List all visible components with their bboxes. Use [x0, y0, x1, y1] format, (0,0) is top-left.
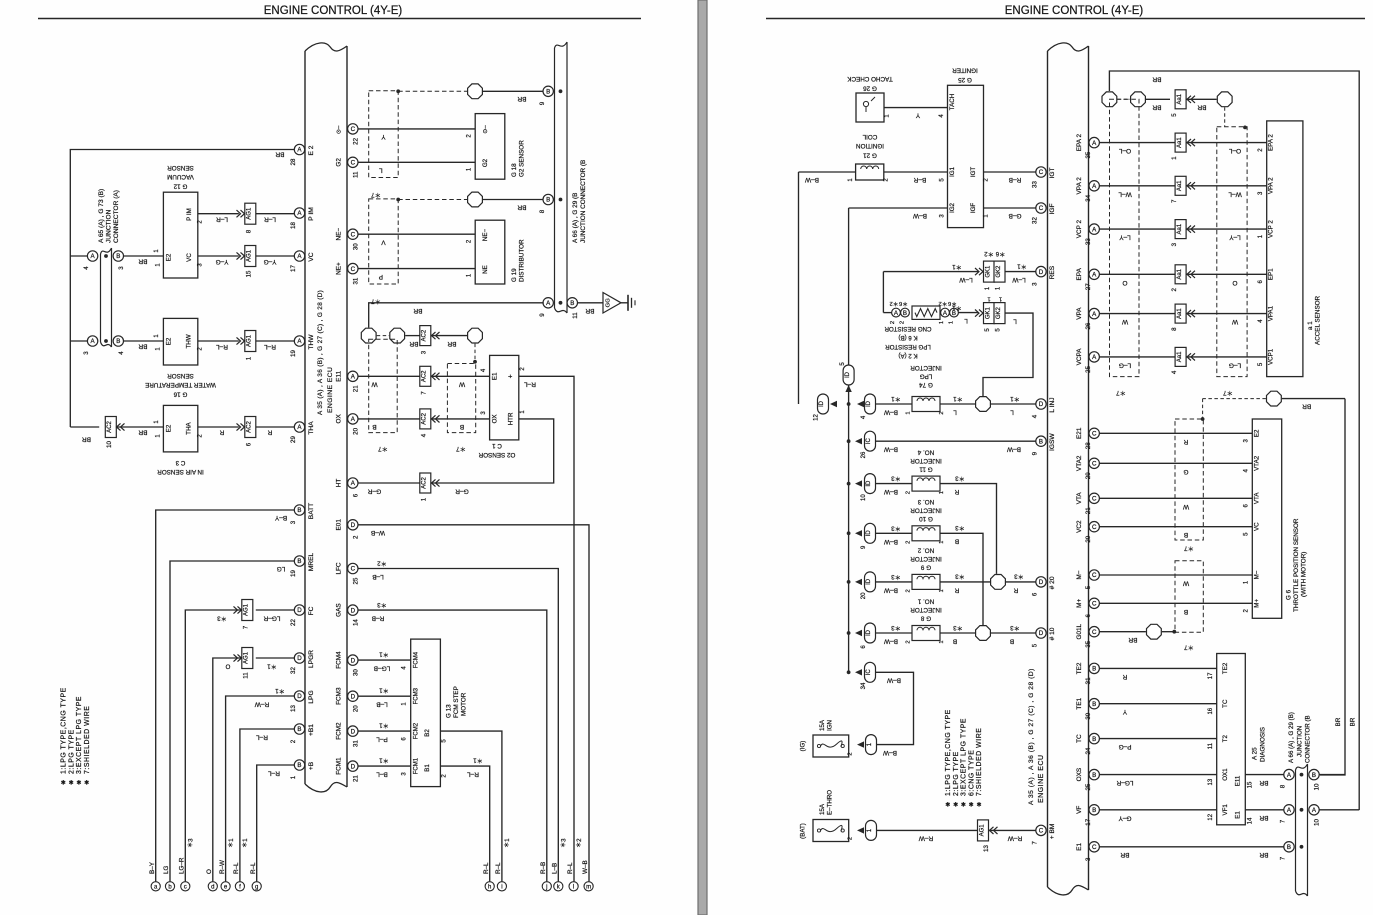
svg-text:Aa1: Aa1: [1177, 180, 1183, 191]
ECU pin 24(B) TC: [1089, 733, 1099, 743]
junction dot injector feed: [847, 402, 851, 406]
svg-text:L: L: [953, 409, 957, 416]
svg-text:G 16: G 16: [173, 391, 187, 398]
svg-text:a 1: a 1: [1307, 321, 1314, 330]
svg-text:GAS: GAS: [336, 603, 343, 617]
svg-text:BR: BR: [275, 151, 284, 158]
svg-text:Y–G: Y–G: [263, 258, 276, 265]
svg-text:VTA: VTA: [1076, 492, 1083, 505]
svg-text:O: O: [1122, 279, 1127, 286]
svg-text:CONNECTOR (B: CONNECTOR (B: [1305, 715, 1312, 763]
ECU pin 31(C) NE+: [348, 263, 358, 273]
svg-text:FCM3: FCM3: [336, 687, 343, 705]
svg-text:6: 6: [1032, 592, 1039, 596]
svg-text:B: B: [546, 197, 550, 204]
page separator strip: [698, 0, 707, 915]
svg-text:＊1: ＊1: [379, 757, 389, 764]
svg-text:TE2: TE2: [1076, 662, 1083, 674]
svg-text:34: 34: [861, 682, 867, 689]
wire IGT to 33C: [984, 171, 1036, 173]
svg-text:B–L: B–L: [376, 771, 388, 778]
ECU pin 7(C) + BM: [1036, 825, 1046, 835]
O2 shield drain dashed v: [474, 344, 476, 362]
svg-text:28: 28: [1085, 442, 1092, 449]
wire TE1 to diagnosis: [1099, 703, 1216, 705]
injector No.1 G 8: [847, 631, 851, 635]
svg-text:HT: HT: [336, 479, 343, 488]
ECU pin 35(A) EPA 2: [1089, 137, 1099, 147]
svg-text:IG2: IG2: [949, 202, 956, 213]
svg-text:R–B: R–B: [1009, 176, 1022, 183]
svg-text:IGNITER: IGNITER: [952, 67, 978, 74]
svg-text:G01L: G01L: [1076, 623, 1083, 639]
svg-text:31: 31: [353, 277, 360, 284]
wire 22C to G2 sensor pin 2: [358, 128, 475, 130]
svg-text:11: 11: [572, 312, 579, 319]
svg-text:VC: VC: [308, 252, 315, 261]
wire B-L FCM1: [358, 765, 410, 767]
svg-text:9: 9: [1032, 451, 1039, 455]
svg-text:R–L: R–L: [250, 862, 257, 874]
distributor shield drain dashed: [398, 199, 467, 201]
octagon BR throttle shield: [1267, 391, 1282, 406]
svg-text:G 26: G 26: [863, 85, 877, 92]
shield junction AC2-6: [245, 417, 256, 438]
svg-text:G–B: G–B: [1008, 212, 1021, 219]
svg-text:AG1: AG1: [247, 334, 253, 347]
wire M− to throttle sensor: [1099, 574, 1252, 576]
svg-text:17: 17: [1085, 818, 1092, 825]
svg-text:COIL: COIL: [862, 133, 877, 140]
svg-text:R–W: R–W: [1007, 835, 1022, 842]
wire B-W to G74: [876, 403, 913, 405]
svg-text:OX: OX: [492, 414, 499, 423]
svg-text:G–R: G–R: [455, 488, 469, 495]
svg-text:E2: E2: [165, 424, 172, 432]
shield junction AC2-7: [420, 366, 431, 386]
svg-text:＊7: ＊7: [1184, 545, 1194, 552]
svg-text:10: 10: [1314, 819, 1321, 826]
svg-text:1: 1: [939, 541, 945, 544]
svg-text:ID: ID: [866, 400, 872, 407]
svg-text:3: 3: [1032, 282, 1039, 286]
svg-text:m: m: [586, 885, 591, 891]
svg-text:OX: OX: [336, 414, 343, 424]
svg-text:B–Y: B–Y: [149, 861, 156, 874]
svg-text:O2 SENSOR: O2 SENSOR: [478, 451, 515, 458]
ECU pin 33(C) IGT: [1036, 167, 1046, 177]
svg-text:＊1: ＊1: [1010, 395, 1020, 402]
svg-text:R–L: R–L: [268, 770, 280, 777]
wire FCM B1 to terminal h: [440, 766, 489, 881]
svg-text:D: D: [1039, 579, 1044, 586]
svg-text:2: 2: [848, 837, 854, 840]
svg-text:B: B: [1184, 608, 1188, 615]
wire R-B GAS down: [358, 610, 547, 881]
svg-text:1:LPG TYPE,CNG TYPE: 1:LPG TYPE,CNG TYPE: [61, 687, 68, 774]
svg-text:A 35 (A) , A 36 (B) , G 27 (C): A 35 (A) , A 36 (B) , G 27 (C) , G 28 (D…: [317, 290, 324, 415]
terminal g R–L: [252, 882, 261, 891]
svg-text:B–W: B–W: [912, 212, 927, 219]
junction B pin 8B: [543, 194, 553, 204]
distributor shield octagon: [468, 192, 483, 207]
svg-text:MOTOR: MOTOR: [461, 692, 468, 716]
ECU pin 3(D) RES: [1036, 266, 1046, 276]
svg-text:TACH: TACH: [949, 94, 956, 110]
wire R-L O2 pin2 down: [519, 376, 574, 881]
svg-text:1: 1: [987, 296, 990, 302]
connector IC-34: [865, 662, 876, 682]
wire R injector4 to #20 drop: [940, 484, 997, 574]
svg-text:B–W: B–W: [883, 586, 898, 593]
svg-text:17: 17: [1208, 672, 1214, 679]
ECU pin 25(B) OXS: [1089, 769, 1099, 779]
terminal d O: [208, 882, 217, 891]
svg-text:3: 3: [118, 266, 125, 270]
svg-text:4: 4: [420, 433, 427, 437]
svg-text:2: 2: [906, 589, 912, 592]
svg-text:＊1: ＊1: [379, 651, 389, 658]
svg-text:B: B: [372, 423, 376, 430]
svg-text:＊2: ＊2: [889, 300, 898, 307]
svg-text:BR: BR: [138, 429, 147, 436]
ECU pin 30(D) FCM4: [348, 655, 358, 665]
wire R-W fuse to AG1-13: [877, 829, 978, 831]
wire FC to terminal c: [185, 610, 242, 881]
terminal k L–B: [554, 882, 563, 891]
svg-text:AC2: AC2: [107, 421, 113, 433]
svg-text:＊3: ＊3: [955, 573, 965, 580]
accel shield octagon 2: [1131, 92, 1146, 107]
svg-text:2: 2: [906, 541, 912, 544]
svg-text:O: O: [1232, 279, 1237, 286]
svg-text:B: B: [1039, 438, 1043, 445]
injector No.2 G 9: [847, 580, 851, 584]
svg-text:B: B: [1092, 807, 1096, 814]
svg-text:C: C: [1092, 461, 1097, 468]
svg-text:9: 9: [539, 101, 546, 105]
svg-text:L–B: L–B: [376, 701, 388, 708]
svg-text:B: B: [1092, 701, 1096, 708]
svg-text:34: 34: [1085, 194, 1092, 201]
svg-text:R–L: R–L: [467, 771, 479, 778]
ECU pin 29(C) VTA2: [1089, 458, 1099, 468]
svg-text:26: 26: [1085, 322, 1092, 329]
svg-text:B: B: [297, 726, 301, 733]
svg-text:＊1: ＊1: [473, 757, 483, 764]
svg-text:2: 2: [290, 739, 297, 743]
svg-text:WATER TEMPERATURE: WATER TEMPERATURE: [145, 381, 216, 388]
wire EPA to accel sensor: [1099, 273, 1175, 275]
svg-text:ID: ID: [866, 480, 872, 487]
wire L-B FCM3: [358, 695, 410, 697]
terminal e R–W: [221, 882, 230, 891]
svg-text:BR: BR: [1152, 104, 1161, 111]
terminal i R–L: [497, 882, 506, 891]
distributor box: [475, 220, 505, 284]
wire L G74 to octagon: [940, 403, 975, 405]
svg-text:l: l: [573, 885, 574, 891]
svg-text:2: 2: [939, 411, 945, 414]
wire 31C to distributor NE: [358, 268, 475, 270]
svg-text:B: B: [297, 507, 301, 514]
svg-text:AC2: AC2: [422, 370, 428, 382]
connector ID-5: [843, 365, 854, 385]
svg-text:LG–R: LG–R: [1116, 779, 1133, 786]
svg-text:✱: ✱: [69, 780, 74, 787]
svg-text:6: 6: [353, 493, 360, 497]
svg-text:L–R: L–R: [264, 216, 276, 223]
svg-text:JUNCTION: JUNCTION: [1297, 726, 1304, 757]
svg-text:＊1: ＊1: [379, 687, 389, 694]
svg-text:17: 17: [290, 265, 297, 272]
svg-text:20: 20: [353, 427, 360, 434]
svg-text:10: 10: [861, 494, 867, 501]
svg-text:ENGINE ECU: ENGINE ECU: [327, 367, 334, 413]
wire BR Aa1-5 to octagon3: [1186, 98, 1217, 100]
wire VF to diagnosis: [1099, 809, 1216, 811]
wire R-W LPG down: [226, 696, 295, 881]
svg-text:⊙–: ⊙–: [337, 125, 343, 134]
junction GK2 (RES): [994, 261, 1005, 282]
svg-text:Y: Y: [1122, 708, 1127, 715]
svg-text:NE−: NE−: [482, 229, 489, 242]
svg-text:D: D: [297, 693, 302, 700]
svg-text:BR: BR: [585, 307, 594, 314]
O2 shield octagon 1: [361, 328, 376, 343]
in air sensor C3 box: [163, 405, 197, 452]
wire 10A to outer bus: [1320, 809, 1360, 811]
svg-text:✱: ✱: [976, 802, 981, 809]
svg-text:D: D: [297, 607, 302, 614]
svg-text:15: 15: [1248, 781, 1254, 788]
O2 shield octagon 2: [390, 328, 405, 343]
wire LPGR to terminal d: [213, 658, 242, 881]
svg-text:＊2: ＊2: [984, 250, 994, 257]
svg-text:CNG RESISTOR: CNG RESISTOR: [884, 325, 932, 332]
shield junction AC2-3: [420, 326, 431, 346]
svg-text:L: L: [964, 317, 968, 324]
svg-text:AG1: AG1: [247, 249, 253, 262]
svg-text:LG: LG: [163, 865, 170, 874]
svg-text:＊3: ＊3: [955, 475, 965, 482]
ECU pin 20(A) OX: [348, 414, 358, 424]
svg-text:TC: TC: [1076, 734, 1083, 743]
accel shield drain dashed: [1224, 107, 1226, 127]
svg-text:E–THRO: E–THRO: [827, 790, 834, 815]
svg-text:3: 3: [83, 351, 90, 355]
svg-text:VACUUM: VACUUM: [167, 173, 194, 180]
svg-text:＊1: ＊1: [952, 263, 962, 270]
svg-text:+B1: +B1: [308, 724, 315, 736]
throttle shield box 1: [1175, 419, 1203, 540]
svg-text:h: h: [488, 885, 491, 891]
svg-text:R: R: [1122, 673, 1127, 680]
ECU pin 2(D) E01: [348, 520, 358, 530]
octagon #10: [976, 626, 991, 641]
svg-text:G: G: [1183, 468, 1188, 475]
svg-text:＊6: ＊6: [899, 300, 908, 307]
svg-text:ID: ID: [866, 578, 872, 585]
ECU pin 9(B) IGSW: [1036, 436, 1046, 446]
wire LG-R FC: [256, 609, 294, 611]
svg-text:3: 3: [1171, 242, 1178, 246]
wire BR octagon to 8B: [483, 199, 544, 201]
svg-text:FCM2: FCM2: [336, 722, 343, 740]
svg-text:FCM1: FCM1: [414, 757, 420, 774]
svg-text:BR: BR: [1259, 851, 1268, 858]
ECU pin 14(D) GAS: [348, 605, 358, 615]
svg-text:20: 20: [1085, 535, 1092, 542]
svg-text:13: 13: [1208, 778, 1214, 785]
svg-text:B: B: [1092, 772, 1096, 779]
svg-text:✱: ✱: [961, 802, 966, 809]
svg-text:B–W: B–W: [886, 677, 901, 684]
svg-text:R–W: R–W: [918, 835, 933, 842]
svg-text:B–W: B–W: [883, 446, 898, 453]
svg-text:G 9: G 9: [920, 564, 931, 571]
accel dashed link: [1117, 98, 1130, 100]
svg-text:14: 14: [353, 619, 360, 626]
svg-text:g: g: [255, 885, 258, 891]
svg-text:B: B: [955, 538, 959, 545]
wire P-L FCM2: [358, 730, 410, 732]
junction connector B ladder (left page): [555, 42, 568, 48]
terminal c LG–R: [181, 882, 190, 891]
svg-text:CONNECTOR (A): CONNECTOR (A): [113, 190, 120, 243]
wire LG-B FCM4: [358, 659, 410, 661]
FCM step motor box: [411, 639, 441, 787]
svg-text:3: 3: [290, 520, 297, 524]
svg-text:15A: 15A: [819, 719, 826, 731]
wire G01L octagon to shield: [1162, 631, 1174, 633]
svg-text:E2: E2: [1253, 429, 1260, 437]
wire tap to A65 pin 4A: [70, 255, 87, 257]
wire L-W RES branch: [883, 271, 978, 273]
svg-text:BATT: BATT: [308, 503, 315, 519]
svg-text:＊2: ＊2: [576, 838, 583, 848]
svg-text:ENGINE CONTROL (4Y-E): ENGINE CONTROL (4Y-E): [1005, 5, 1144, 17]
svg-text:G 10: G 10: [919, 515, 933, 522]
resistor right pins: [941, 308, 950, 317]
svg-text:FCM4: FCM4: [336, 651, 343, 669]
svg-text:＊3: ＊3: [891, 624, 901, 631]
svg-text:5: 5: [1171, 113, 1178, 117]
wire BR octagon2 to Aa1-5: [1146, 98, 1170, 100]
svg-text:＊3: ＊3: [561, 838, 568, 848]
wire B-W IC34 to IGN fuse: [876, 672, 914, 744]
ECU pin 28(A) E 2: [294, 144, 304, 154]
svg-text:2: 2: [353, 535, 360, 539]
svg-text:LPG RESISTOR: LPG RESISTOR: [885, 343, 931, 350]
svg-text:BR: BR: [1152, 76, 1161, 83]
svg-text:8: 8: [245, 229, 252, 233]
svg-text:BR: BR: [517, 95, 526, 102]
svg-text:＊1: ＊1: [953, 395, 963, 402]
svg-text:1: 1: [1171, 156, 1178, 160]
svg-text:W–B: W–B: [582, 860, 589, 874]
wire VTA to throttle sensor: [1099, 497, 1252, 499]
svg-text:VCP 2: VCP 2: [1268, 220, 1275, 238]
svg-text:GK1: GK1: [985, 306, 991, 319]
junction Aa1-5: [1175, 90, 1186, 109]
svg-text:VCP 2: VCP 2: [1076, 219, 1083, 238]
svg-text:＊3: ＊3: [1010, 624, 1020, 631]
svg-text:＊3: ＊3: [217, 615, 227, 622]
svg-text:P–L: P–L: [376, 736, 388, 743]
connector oval IGN: [866, 735, 877, 755]
svg-text:＊1: ＊1: [379, 722, 389, 729]
svg-text:K 2 (A): K 2 (A): [898, 352, 917, 359]
terminal m W–B: [584, 882, 593, 891]
svg-text:INJECTOR: INJECTOR: [910, 555, 942, 562]
svg-text:2:LPG TYPE: 2:LPG TYPE: [68, 729, 75, 774]
terminal h R–L: [485, 882, 494, 891]
wire VPA 2 to accel sensor: [1099, 185, 1175, 187]
svg-text:VTA: VTA: [1253, 492, 1260, 504]
svg-text:L–B: L–B: [372, 573, 384, 580]
svg-text:7: 7: [1280, 819, 1287, 823]
svg-text:BR: BR: [138, 258, 147, 265]
svg-text:L–R: L–R: [216, 216, 228, 223]
svg-text:GK1: GK1: [985, 265, 991, 278]
shield junction AC2-4: [420, 409, 431, 429]
wire Y tacho to igniter: [884, 107, 948, 109]
ECU pin 33(A) VCP 2: [1089, 224, 1099, 234]
arrow to ID-4: [857, 401, 864, 407]
wire L-B LFC down: [358, 569, 558, 882]
octagon L INJ: [976, 397, 991, 412]
svg-text:FCM2: FCM2: [414, 722, 420, 739]
octagon #20: [991, 575, 1006, 590]
svg-text:＊7: ＊7: [456, 445, 466, 452]
svg-text:NE+: NE+: [336, 262, 343, 275]
shield junction AG1-11: [242, 648, 253, 669]
svg-text:ENGINE CONTROL (4Y-E): ENGINE CONTROL (4Y-E): [264, 5, 403, 17]
wire THA C3 to ECU: [198, 426, 239, 428]
svg-text:D: D: [1039, 269, 1044, 276]
svg-text:11: 11: [1208, 742, 1214, 749]
svg-text:＊1: ＊1: [504, 838, 511, 848]
svg-text:NE−: NE−: [336, 228, 343, 241]
svg-text:＊1: ＊1: [275, 687, 285, 694]
junction dot IGSW row: [847, 439, 851, 443]
svg-text:R: R: [267, 429, 272, 436]
svg-text:L–Y: L–Y: [1119, 234, 1131, 241]
svg-text:W: W: [458, 381, 465, 388]
distributor shield drain dot: [396, 198, 400, 202]
ECU pin 1(B) +B: [294, 760, 304, 770]
svg-text:Aa1: Aa1: [1177, 268, 1183, 279]
svg-text:15: 15: [245, 270, 252, 277]
svg-text:C: C: [351, 126, 356, 133]
svg-text:R–L: R–L: [567, 862, 574, 874]
wire BR G01L: [1099, 631, 1146, 633]
svg-text:L INJ: L INJ: [1049, 397, 1056, 412]
svg-text:C: C: [1039, 828, 1044, 835]
svg-text:BR: BR: [138, 343, 147, 350]
svg-text:Aa1: Aa1: [1177, 351, 1183, 362]
wire TC to diagnosis: [1099, 738, 1216, 740]
svg-text:IGNITION: IGNITION: [856, 142, 884, 149]
wire TE2 to diagnosis: [1099, 667, 1216, 669]
ignition coil G21 box: [856, 164, 884, 180]
svg-text:LFC: LFC: [336, 562, 343, 574]
svg-text:G 19: G 19: [511, 268, 518, 282]
wire VCPA to accel sensor: [1099, 356, 1175, 358]
wire B-W IC26 to IGSW: [876, 440, 1036, 442]
junction connector B ladder (right page): [1296, 764, 1308, 770]
